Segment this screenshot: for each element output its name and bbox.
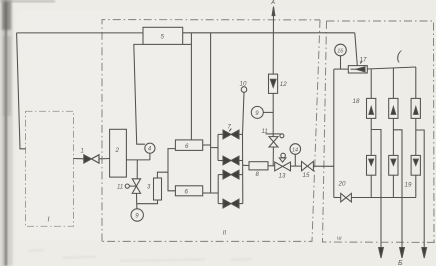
orifice 8 (249, 162, 268, 170)
wire: gauge 14 stem (294, 154, 296, 166)
wire: stub under heater 5 left (134, 44, 145, 144)
rotameter 18c (411, 98, 420, 118)
wire: filter 3 top to bus (157, 172, 168, 178)
wire: feed to valve pair 7a/7b bus (211, 147, 218, 149)
wire: gauge 4 stem (149, 153, 151, 160)
svg-text:18: 18 (353, 98, 360, 105)
wire: left outer drop into box I (17, 33, 26, 149)
wire: valve 13 to valve 15 (291, 165, 302, 167)
wire: drop to filter 6 top (190, 33, 192, 140)
valve 11b (hourglass with top bar) (266, 133, 281, 135)
valve 7a (223, 130, 239, 139)
wire: left bus valves 7c-7d (217, 175, 219, 204)
rotameter 19b (389, 155, 398, 175)
valve 11 (hourglass with actuator circle) (132, 179, 140, 186)
valve 7b (223, 156, 239, 165)
wire: valve 11 to junction (136, 193, 138, 203)
label leader for 17 (360, 61, 362, 64)
paper left edge shadow band (0, 0, 3, 266)
wire: drop into box III to check valve 17 (355, 33, 358, 66)
filter 6 lower (175, 186, 202, 196)
wire: gauge 9b stub (263, 111, 273, 113)
wire: rotameter 19 returns to valve 20 bus (370, 175, 372, 197)
sampler 10 (241, 87, 247, 93)
rotameter 18a (367, 98, 376, 118)
svg-text:17: 17 (360, 57, 367, 64)
three-way valve 13 (275, 162, 283, 171)
svg-text:5: 5 (161, 34, 165, 41)
wire: top bus to check valve 17 (334, 68, 349, 70)
wire: left bus valves 7a-7b (217, 134, 219, 160)
wire: A-line below 12 (272, 93, 274, 136)
gauge 4 (145, 143, 155, 153)
wire: unit 2 outlet manifold (126, 159, 149, 161)
wire: branch to outlet line 2 (393, 130, 402, 249)
svg-text:6: 6 (185, 188, 189, 195)
svg-text:15: 15 (303, 172, 310, 179)
node A arrow at top (272, 7, 275, 16)
outlet arrow 1 (379, 248, 384, 259)
wire: column links 18 to 19 (370, 118, 372, 155)
wire: stub under heater 5 right (183, 43, 192, 45)
wire: junction to filter 3 bottom (137, 200, 158, 204)
svg-text:20: 20 (338, 181, 346, 188)
wire: gauge 16 stem (340, 56, 342, 69)
svg-text:Б: Б (398, 260, 403, 266)
svg-text:II: II (223, 230, 227, 236)
gauge 9b (251, 106, 263, 118)
wire: top bus right of 17 (367, 67, 416, 69)
wire: filter 6 lower outlet to valve pair 7c/7d bus (203, 192, 219, 194)
rotameter 19c (411, 155, 420, 175)
sampler 10 line down to bus (243, 92, 245, 134)
wire: branch to outlet line 3 (416, 130, 424, 249)
wire: top supply line W1 left of heater 5 (17, 32, 143, 34)
wire: filter 6 upper outlet (203, 144, 211, 146)
wire: drop to valve 11 (136, 160, 138, 179)
filter 6 upper (175, 140, 202, 151)
wire: bus to orifice 8 (243, 164, 249, 166)
rotameter 18b (389, 98, 398, 118)
svg-text:1: 1 (81, 149, 84, 155)
svg-text:12: 12 (280, 81, 287, 88)
wire: branch to outlet line 1 (371, 130, 381, 250)
gauge 9 (131, 209, 143, 221)
svg-text:I: I (48, 217, 50, 224)
wire: valve 11b to main line (272, 147, 274, 166)
unit 2 (110, 129, 127, 177)
svg-text:19: 19 (405, 182, 412, 189)
valve 7c (223, 170, 239, 179)
wire: junction to gauge 9 (136, 204, 138, 209)
svg-text:11: 11 (262, 129, 268, 135)
svg-text:2: 2 (115, 147, 120, 154)
wire: stubs to valve vertices (218, 133, 223, 135)
wire: top supply line W1 right of heater 5 (183, 32, 355, 34)
wire: box I outlet to valve 1 (74, 158, 84, 160)
gauge 14 (290, 144, 301, 155)
svg-text:13: 13 (279, 172, 286, 179)
wire: valve 20 inlet (334, 197, 341, 199)
gauge 16 (335, 44, 347, 56)
wire: drop to valve manifold (210, 33, 212, 193)
svg-text:ш: ш (337, 235, 342, 241)
relief valve 12 (269, 74, 278, 93)
boundary box III (dash-dot) (323, 21, 436, 242)
check valve 17 (348, 66, 367, 73)
wire: drops to rotameters 18 (370, 69, 372, 99)
rotameter 19a (367, 155, 376, 175)
valve 1 (84, 155, 92, 163)
wire: valve 15 into box III (313, 165, 333, 167)
outlet arrow 2 (400, 248, 405, 259)
outlet arrow 3 (422, 248, 427, 259)
heater 5 (143, 27, 183, 44)
svg-text:A: A (270, 0, 275, 6)
wire: right bus of valves 7 (242, 134, 244, 203)
wire: vertical A-line (272, 8, 274, 74)
label leader for 7 (229, 129, 231, 132)
wire: valve 20 outlet bus (351, 197, 416, 199)
svg-text:10: 10 (240, 81, 247, 88)
svg-text:14: 14 (292, 147, 298, 153)
valve 20 (341, 193, 346, 202)
wire: left bus of filters 6 (168, 149, 175, 191)
svg-text:11: 11 (117, 185, 123, 191)
valve 15 (302, 161, 308, 170)
valve 7d (223, 199, 239, 208)
wire: box III left bus (333, 69, 335, 197)
filter 3 (154, 178, 162, 200)
wire: valve 1 to unit 2 (99, 158, 110, 160)
svg-text:16: 16 (337, 48, 344, 54)
boundary box II (dash-dot) (102, 20, 320, 242)
boundary box I (dash-dot) (26, 111, 74, 226)
svg-text:6: 6 (185, 143, 189, 150)
wire: orifice 8 to valve 13 (268, 165, 275, 167)
